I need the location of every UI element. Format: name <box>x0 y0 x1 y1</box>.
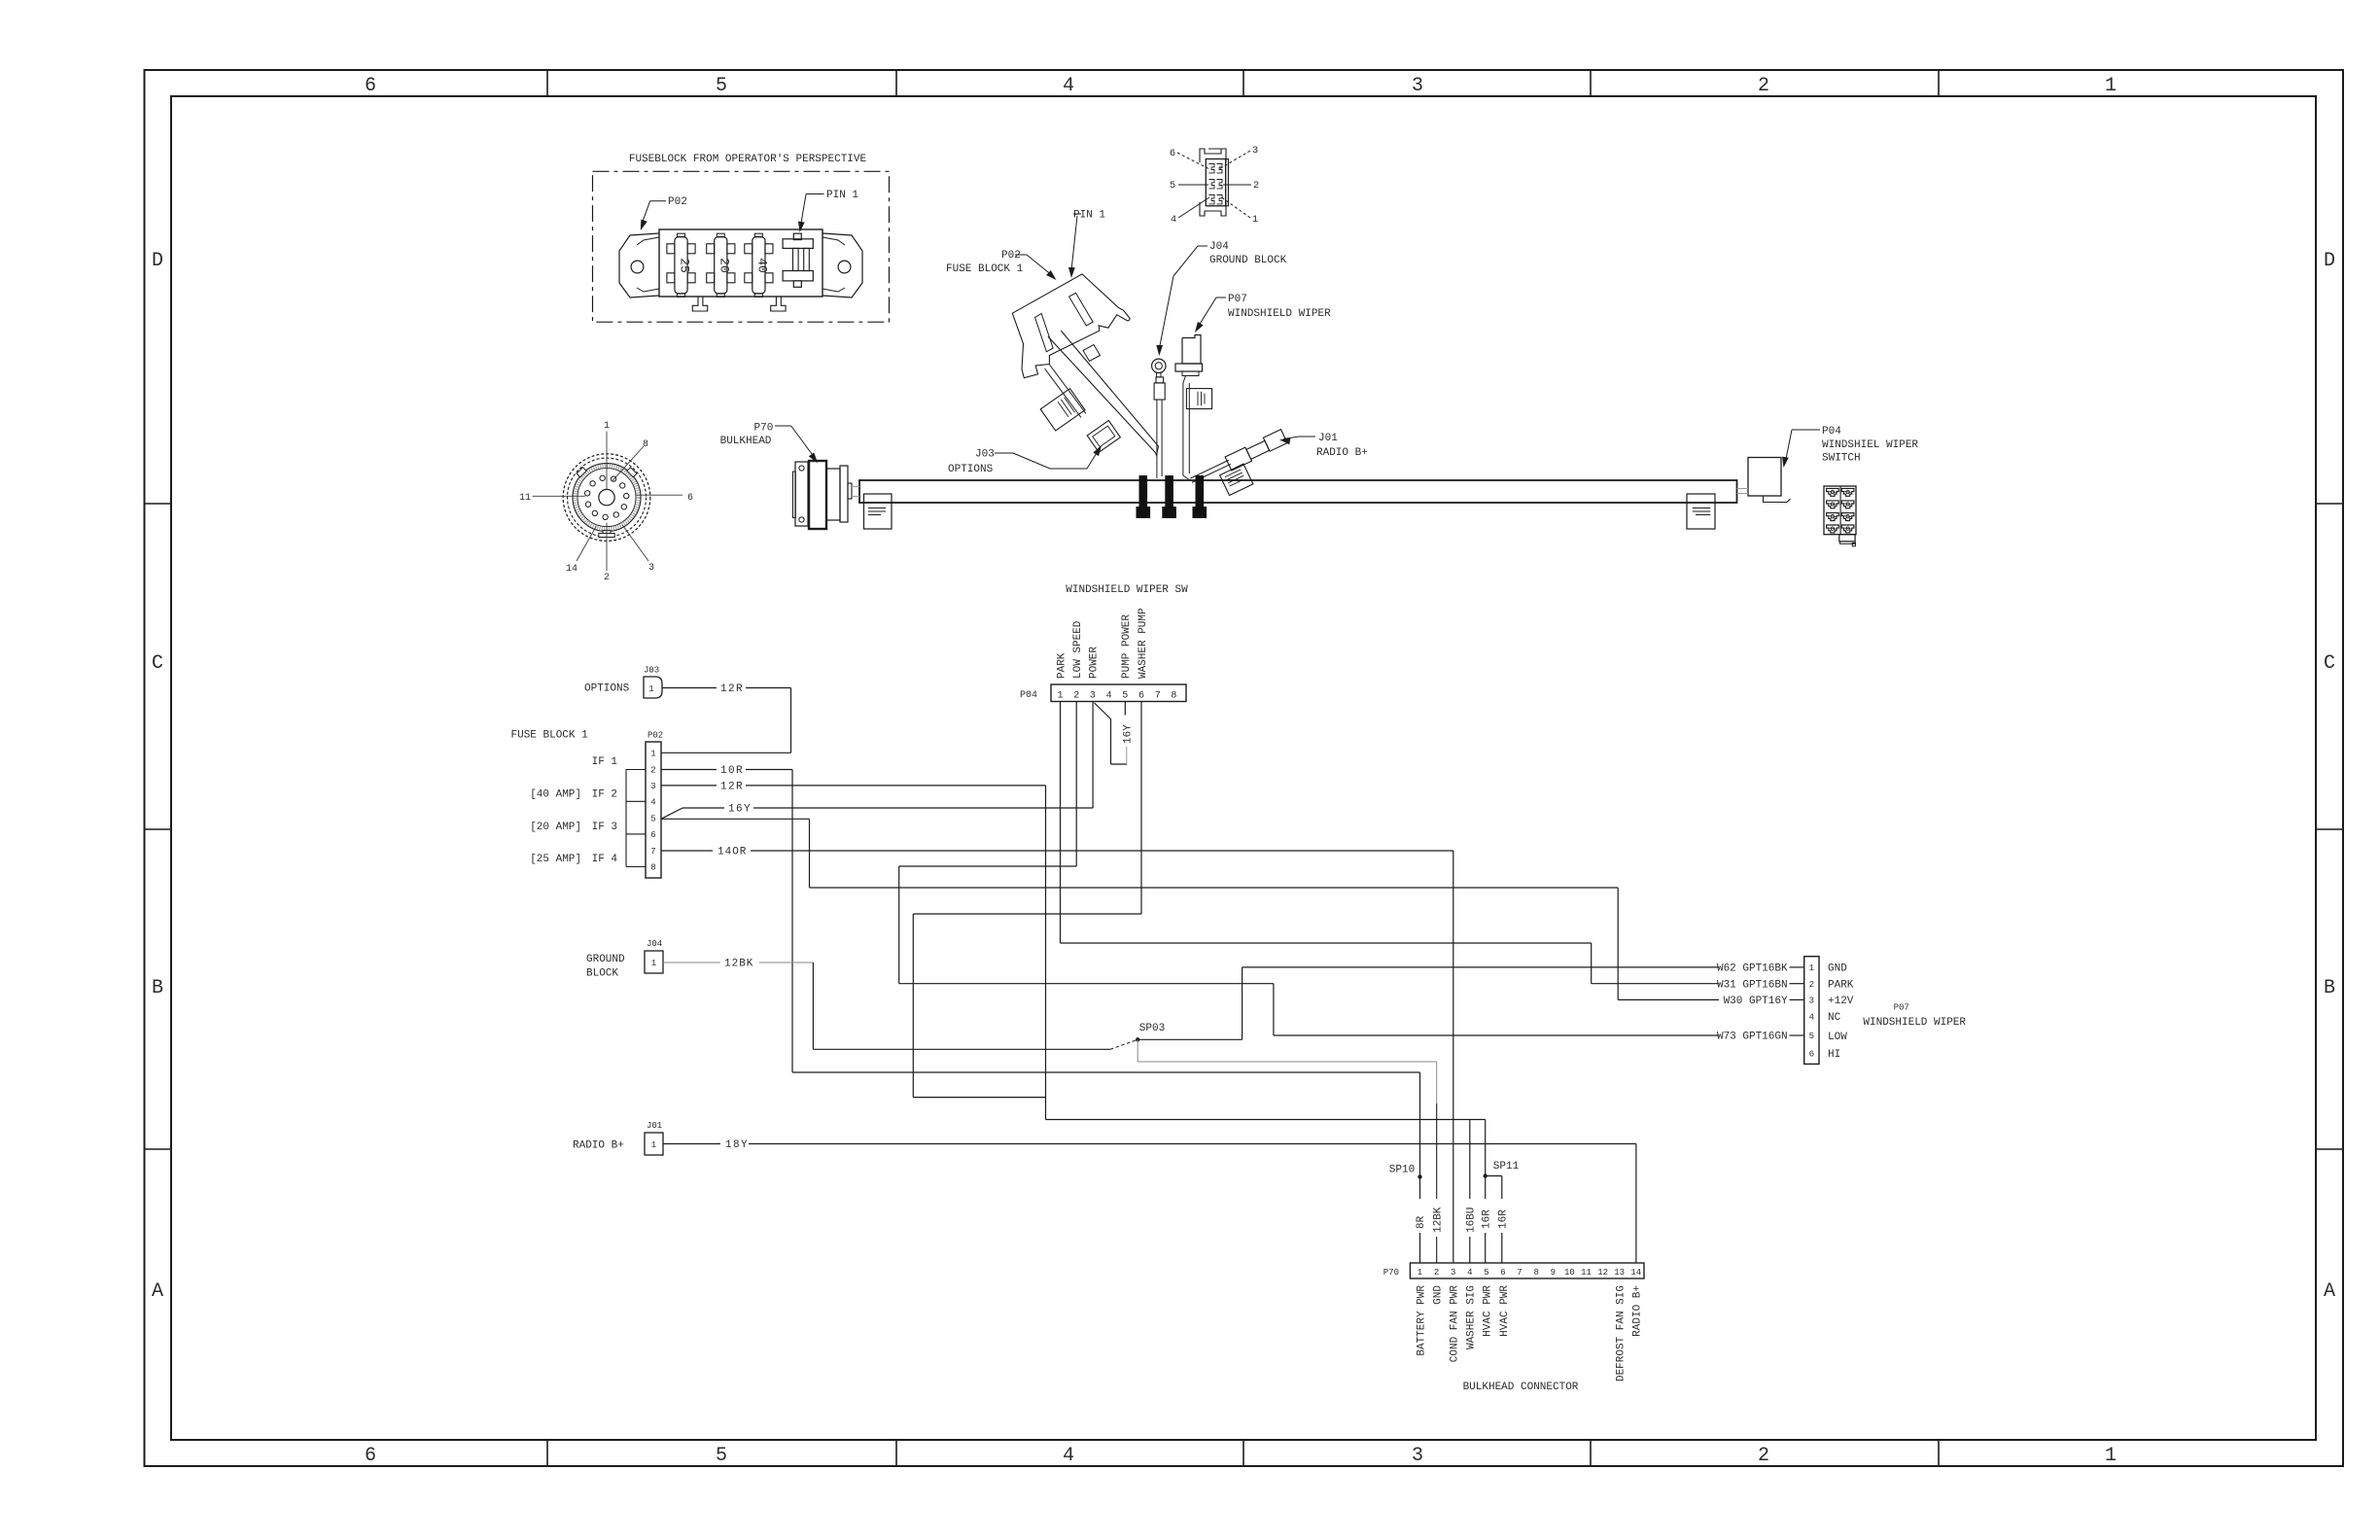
svg-text:2: 2 <box>1758 75 1769 97</box>
svg-text:PIN 1: PIN 1 <box>826 190 858 201</box>
fuse 25A detail <box>675 237 687 294</box>
svg-text:1: 1 <box>1417 1268 1422 1277</box>
svg-text:5: 5 <box>1122 691 1128 702</box>
svg-text:NC: NC <box>1828 1012 1841 1024</box>
svg-text:2: 2 <box>1758 1445 1769 1467</box>
sheet border inner frame <box>171 96 2316 1440</box>
svg-text:7: 7 <box>650 847 655 857</box>
wire 12R J03 to P02 pin1 <box>662 687 717 689</box>
svg-text:4: 4 <box>650 798 655 808</box>
svg-text:GND: GND <box>1828 963 1847 975</box>
svg-text:WASHER SIG: WASHER SIG <box>1466 1285 1478 1349</box>
svg-text:12BK: 12BK <box>1432 1207 1444 1233</box>
svg-text:1: 1 <box>650 750 655 759</box>
svg-text:8: 8 <box>1533 1268 1538 1277</box>
svg-text:SP03: SP03 <box>1139 1023 1165 1034</box>
svg-text:P70: P70 <box>754 423 774 435</box>
svg-text:6: 6 <box>1500 1268 1505 1277</box>
windshield wiper switch terminal grid <box>1824 486 1856 535</box>
wire 16Y P02 pin5 to P07 pin3 +12V <box>661 818 810 820</box>
svg-text:14: 14 <box>566 564 577 575</box>
wire W73 GPT16GN P04 pin2 to P07 pin5 LOW <box>1075 702 1077 867</box>
svg-text:5: 5 <box>1170 180 1175 192</box>
wire 16Y P02 pin5 to P04 pin3 <box>661 808 682 819</box>
svg-text:IF 4: IF 4 <box>592 854 618 865</box>
svg-text:P02: P02 <box>668 196 687 208</box>
svg-text:1: 1 <box>2105 1445 2117 1467</box>
connector J01 schematic <box>645 1133 663 1155</box>
svg-text:5: 5 <box>650 815 655 824</box>
wire 14OR P02 pin7 to P70 pin3 cond fan pwr <box>661 850 713 852</box>
wire W31 GPT16BN P04 pin1 to P07 pin2 PARK <box>1060 702 1062 944</box>
fuse block detail right mounting ear <box>822 233 862 297</box>
svg-text:4: 4 <box>1467 1268 1472 1277</box>
windshield wiper P07 physical flange <box>1175 364 1203 371</box>
svg-text:IF 1: IF 1 <box>592 756 618 768</box>
svg-text:[20 AMP]: [20 AMP] <box>530 822 581 833</box>
svg-text:W30 GPT16Y: W30 GPT16Y <box>1724 996 1788 1007</box>
svg-text:P70: P70 <box>1383 1268 1399 1277</box>
svg-text:4: 4 <box>1809 1012 1814 1022</box>
connector detail pin cavities <box>1209 164 1215 173</box>
svg-text:2: 2 <box>1809 980 1814 990</box>
svg-text:BULKHEAD CONNECTOR: BULKHEAD CONNECTOR <box>1463 1382 1579 1393</box>
svg-text:WINDSHIELD WIPER SW: WINDSHIELD WIPER SW <box>1066 584 1188 596</box>
wire 16BU branch to P70 pin4 washer sig <box>1469 1120 1471 1200</box>
splice SP03 <box>1136 1037 1139 1041</box>
harness breakout hatch box left <box>864 494 892 529</box>
svg-text:LOW SPEED: LOW SPEED <box>1072 620 1084 679</box>
svg-text:PARK: PARK <box>1828 980 1854 992</box>
connector P02 schematic body <box>646 742 661 878</box>
splice SP11 <box>1485 1120 1487 1176</box>
svg-text:FUSEBLOCK FROM OPERATOR'S PERS: FUSEBLOCK FROM OPERATOR'S PERSPECTIVE <box>629 154 867 165</box>
harness drop bolt 1 <box>1139 475 1148 507</box>
connector detail body upper bracket <box>1200 149 1221 162</box>
harness main trunk tube <box>859 480 1737 503</box>
svg-text:12BK: 12BK <box>724 959 753 970</box>
svg-text:J01: J01 <box>647 1121 662 1131</box>
wire 16R SP11 to P70 pin6 hvac pwr <box>1486 1175 1502 1177</box>
bulkhead connector P70 physical stub <box>848 483 852 499</box>
empty fuse slot with PIN 1 terminal <box>783 239 813 249</box>
svg-text:3: 3 <box>1252 145 1258 157</box>
svg-text:2: 2 <box>604 573 610 583</box>
svg-text:7: 7 <box>1517 1268 1522 1277</box>
svg-text:PUMP POWER: PUMP POWER <box>1121 614 1133 679</box>
svg-text:10R: 10R <box>720 765 744 777</box>
svg-text:18Y: 18Y <box>725 1139 749 1151</box>
wire 16R SP11 to P70 pin5 hvac pwr <box>1485 1176 1487 1200</box>
svg-text:3: 3 <box>1090 691 1096 702</box>
svg-text:6: 6 <box>365 75 376 97</box>
zone tick marks bottom <box>546 1440 548 1466</box>
svg-text:14OR: 14OR <box>717 847 747 858</box>
svg-text:D: D <box>2324 250 2335 272</box>
svg-text:5: 5 <box>716 75 727 97</box>
svg-text:PIN 1: PIN 1 <box>1073 210 1105 222</box>
svg-text:BLOCK: BLOCK <box>586 968 618 980</box>
svg-text:6: 6 <box>650 830 655 840</box>
windshield wiper P07 pigtail hatch connector <box>1186 389 1211 409</box>
svg-text:4: 4 <box>1063 75 1074 97</box>
svg-text:2: 2 <box>1073 691 1079 702</box>
svg-text:FUSE BLOCK 1: FUSE BLOCK 1 <box>511 730 589 742</box>
wire 12R P02 pin3 feed <box>661 785 717 787</box>
zone tick marks left <box>145 503 172 505</box>
bulkhead connector link wires <box>852 486 859 488</box>
svg-text:BATTERY PWR: BATTERY PWR <box>1416 1285 1427 1356</box>
fuse block P02 pigtail cable <box>1050 365 1087 414</box>
svg-text:P02: P02 <box>647 731 663 741</box>
svg-text:J03: J03 <box>644 666 659 676</box>
svg-text:1: 1 <box>651 1140 656 1150</box>
circular connector pins <box>603 514 608 519</box>
bulkhead connector P70 physical coupling ring <box>826 469 840 520</box>
svg-text:5: 5 <box>1809 1032 1814 1041</box>
svg-text:3: 3 <box>648 563 654 574</box>
svg-text:A: A <box>2324 1280 2335 1303</box>
zone tick marks right <box>2316 503 2343 505</box>
connector P07 schematic body <box>1804 957 1819 1065</box>
svg-text:16R: 16R <box>1481 1209 1492 1229</box>
svg-text:W62 GPT16BK: W62 GPT16BK <box>1717 963 1788 975</box>
fuse block P02 pigtail end connector J03 plug <box>1087 421 1120 453</box>
svg-text:8: 8 <box>650 863 655 873</box>
connector detail body lower bracket <box>1200 202 1226 216</box>
svg-text:C: C <box>152 652 163 675</box>
svg-text:11: 11 <box>519 493 531 504</box>
circular connector centre hole <box>599 489 614 505</box>
svg-text:HVAC PWR: HVAC PWR <box>1499 1285 1511 1337</box>
svg-text:16BU: 16BU <box>1465 1207 1477 1233</box>
svg-text:W31 GPT16BN: W31 GPT16BN <box>1717 979 1788 991</box>
svg-text:P04: P04 <box>1020 690 1037 701</box>
svg-text:WINDSHIELD WIPER: WINDSHIELD WIPER <box>1863 1017 1966 1029</box>
svg-text:RADIO B+: RADIO B+ <box>1316 447 1368 459</box>
wire 16Y branch P04 pin3 to P04 pin5 <box>1095 703 1111 719</box>
harness breakout hatch box right <box>1687 494 1715 529</box>
svg-text:SP11: SP11 <box>1493 1161 1520 1172</box>
detail view phantom boundary box <box>593 171 890 322</box>
connector J04 schematic <box>645 951 663 973</box>
svg-text:GND: GND <box>1432 1285 1444 1305</box>
svg-text:PARK: PARK <box>1056 652 1067 679</box>
svg-text:1: 1 <box>648 684 653 694</box>
wire 10R P02 pin2 to P70 pin1 battery pwr <box>661 769 717 771</box>
fuse block detail left ear hole <box>631 261 644 273</box>
svg-text:RADIO B+: RADIO B+ <box>573 1140 624 1152</box>
wire 18Y J01 to P70 pin14 radio B+ <box>663 1143 720 1145</box>
zone tick marks top <box>546 70 548 96</box>
svg-text:P07: P07 <box>1228 294 1247 305</box>
fuse block P02 physical tilted body <box>1012 274 1130 378</box>
harness drop bolt 3 <box>1196 475 1205 507</box>
svg-text:2: 2 <box>650 766 655 776</box>
connector P04 schematic body <box>1051 684 1186 702</box>
radio B+ J01 in-line fuse holder <box>1188 430 1297 507</box>
svg-text:HVAC PWR: HVAC PWR <box>1483 1285 1494 1337</box>
svg-text:1: 1 <box>604 421 610 432</box>
svg-text:IF 2: IF 2 <box>592 789 617 801</box>
harness drop bolt 2 <box>1165 475 1173 507</box>
svg-text:IF 3: IF 3 <box>592 822 617 833</box>
bulkhead connector P70 physical shell <box>809 461 826 529</box>
fuse block detail left mounting ear <box>619 233 659 297</box>
svg-text:12R: 12R <box>720 683 744 695</box>
fuse 40A detail <box>752 237 765 294</box>
svg-text:D: D <box>152 250 163 272</box>
windshield wiper switch tab <box>1839 535 1855 542</box>
svg-text:6: 6 <box>1170 148 1175 159</box>
svg-text:SWITCH: SWITCH <box>1822 453 1861 465</box>
svg-text:1: 1 <box>1809 963 1814 973</box>
svg-text:W73 GPT16GN: W73 GPT16GN <box>1717 1032 1788 1043</box>
fuse block P02 fuse cavity slots <box>1035 314 1054 352</box>
svg-text:B: B <box>2324 977 2335 999</box>
svg-text:BULKHEAD: BULKHEAD <box>720 436 772 447</box>
svg-text:HI: HI <box>1828 1049 1840 1061</box>
svg-text:40: 40 <box>754 258 769 273</box>
svg-text:P04: P04 <box>1822 426 1841 437</box>
svg-text:1: 1 <box>2105 75 2117 97</box>
svg-text:4: 4 <box>1171 214 1176 226</box>
svg-text:16Y: 16Y <box>1122 724 1134 744</box>
svg-text:[40 AMP]: [40 AMP] <box>530 789 581 801</box>
connector J03 schematic <box>644 677 662 698</box>
svg-text:10: 10 <box>1564 1268 1575 1277</box>
wire 12BK SP03 to P70 pin2 GND <box>1137 1039 1138 1062</box>
svg-text:J03: J03 <box>975 449 995 461</box>
fuse block P02 pigtail hatch connector <box>1040 389 1085 431</box>
svg-text:20: 20 <box>717 258 731 273</box>
svg-text:SP10: SP10 <box>1389 1165 1415 1176</box>
svg-text:P07: P07 <box>1894 1003 1909 1013</box>
ground block J04 ring terminal <box>1152 359 1166 372</box>
fuse block detail right ear hole <box>838 261 851 273</box>
svg-text:13: 13 <box>1614 1268 1625 1277</box>
fuse block P02 detail body <box>659 229 822 297</box>
fuse block detail mounting stud right <box>771 297 786 311</box>
svg-text:9: 9 <box>1551 1268 1556 1277</box>
svg-text:8R: 8R <box>1416 1215 1427 1229</box>
splice SP10 <box>1417 1174 1421 1178</box>
svg-text:16Y: 16Y <box>728 804 752 816</box>
svg-text:COND FAN PWR: COND FAN PWR <box>1450 1285 1461 1363</box>
svg-text:GROUND: GROUND <box>586 954 625 965</box>
svg-text:3: 3 <box>1809 997 1814 1006</box>
wire W62 GPT16BK SP03 to P07 pin1 GND <box>1137 1038 1242 1040</box>
svg-text:4: 4 <box>1106 691 1112 702</box>
fuse bracket on P02 <box>626 769 646 771</box>
fuse block P02 physical long rail <box>1048 336 1156 452</box>
svg-text:2: 2 <box>1253 180 1259 192</box>
svg-text:DEFROST FAN SIG: DEFROST FAN SIG <box>1616 1285 1627 1382</box>
svg-text:WINDSHIELD WIPER: WINDSHIELD WIPER <box>1228 308 1331 320</box>
svg-text:3: 3 <box>1412 1445 1423 1467</box>
svg-text:+12V: +12V <box>1828 996 1854 1007</box>
svg-text:3: 3 <box>1451 1268 1455 1277</box>
svg-text:OPTIONS: OPTIONS <box>584 683 630 695</box>
connector detail body <box>1206 159 1225 206</box>
fuse 20A detail <box>715 237 727 294</box>
svg-text:1: 1 <box>1057 691 1063 702</box>
svg-text:7: 7 <box>1155 691 1161 702</box>
svg-text:12R: 12R <box>720 782 744 793</box>
svg-text:A: A <box>152 1280 163 1303</box>
svg-text:14: 14 <box>1630 1268 1641 1277</box>
svg-text:12: 12 <box>1597 1268 1608 1277</box>
svg-text:3: 3 <box>1412 75 1423 97</box>
windshield wiper switch P04 physical connector <box>1748 458 1781 497</box>
svg-text:P02: P02 <box>1001 250 1021 262</box>
fuse block detail mounting stud left <box>692 297 707 311</box>
svg-text:B: B <box>152 977 163 999</box>
circular connector face view outer shell <box>563 454 650 542</box>
bulkhead connector P70 physical rear plate <box>795 462 808 526</box>
svg-text:J01: J01 <box>1318 433 1338 444</box>
circular connector outer ring <box>568 458 647 537</box>
svg-text:C: C <box>2324 652 2335 675</box>
svg-text:16R: 16R <box>1497 1209 1509 1229</box>
svg-text:LOW: LOW <box>1828 1032 1847 1043</box>
svg-text:2: 2 <box>1434 1268 1439 1277</box>
svg-text:WASHER PUMP: WASHER PUMP <box>1137 608 1149 679</box>
svg-text:6: 6 <box>687 493 693 504</box>
windshield wiper P07 pigtail wire <box>1183 376 1186 476</box>
circular connector keyways <box>577 468 586 477</box>
svg-text:J04: J04 <box>1209 241 1229 253</box>
svg-text:3: 3 <box>650 782 655 791</box>
svg-text:6: 6 <box>365 1445 376 1467</box>
wire P04 pin6 washer pump branch <box>1140 702 1142 915</box>
svg-text:6: 6 <box>1809 1049 1814 1059</box>
svg-text:8: 8 <box>1171 691 1176 702</box>
wire 12BK J04 ground to splice SP03 <box>663 962 720 963</box>
svg-text:OPTIONS: OPTIONS <box>948 464 994 475</box>
svg-text:1: 1 <box>1252 214 1258 226</box>
svg-text:WINDSHIEL WIPER: WINDSHIEL WIPER <box>1822 439 1918 451</box>
svg-text:6: 6 <box>1138 691 1144 702</box>
svg-text:[25 AMP]: [25 AMP] <box>530 854 581 865</box>
svg-text:RADIO B+: RADIO B+ <box>1632 1285 1644 1337</box>
bulkhead connector P70 physical body <box>840 466 848 522</box>
connector P70 schematic body <box>1410 1263 1644 1278</box>
svg-text:1: 1 <box>651 959 656 968</box>
windshield wiper P07 physical body <box>1182 335 1201 365</box>
svg-text:FUSE BLOCK 1: FUSE BLOCK 1 <box>946 263 1024 275</box>
svg-text:11: 11 <box>1581 1268 1592 1277</box>
fuse block P02 rail fuse element <box>1083 345 1101 362</box>
svg-text:4: 4 <box>1063 1445 1074 1467</box>
svg-text:J04: J04 <box>647 939 662 949</box>
svg-text:25: 25 <box>678 258 692 273</box>
svg-text:5: 5 <box>1484 1268 1488 1277</box>
bulkhead connector P70 physical gasket <box>793 472 796 518</box>
circular connector knurled ring <box>573 464 641 532</box>
svg-text:GROUND BLOCK: GROUND BLOCK <box>1209 255 1287 266</box>
svg-text:8: 8 <box>643 439 648 450</box>
svg-text:POWER: POWER <box>1089 647 1101 679</box>
svg-text:5: 5 <box>716 1445 727 1467</box>
